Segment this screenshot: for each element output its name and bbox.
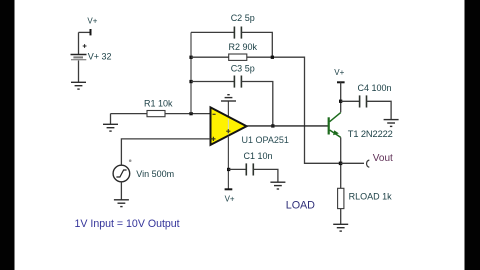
- ground (C4): [384, 120, 399, 127]
- svg-text:RLOAD 1k: RLOAD 1k: [349, 192, 393, 202]
- junction node collector/C4: [339, 100, 342, 103]
- junction node emitter/Vout/feedback: [339, 162, 343, 166]
- terminal tick V+ (battery): [90, 29, 92, 35]
- wire emitter down to load: [340, 137, 342, 188]
- ground (RLOAD): [333, 224, 348, 231]
- svg-text:V+: V+: [225, 194, 235, 203]
- wire op-amp output to base: [246, 125, 329, 127]
- op-amp supply plus mark: [226, 129, 230, 133]
- junction node C3/output: [271, 124, 274, 127]
- wire battery bottom vertical: [78, 61, 80, 83]
- op-amp plus input mark: [211, 137, 215, 141]
- battery V1 symbol plates: [71, 55, 87, 60]
- svg-text:C4 100n: C4 100n: [358, 83, 392, 93]
- terminal tick V+ (op-amp supply): [225, 188, 233, 190]
- wire battery top vertical: [78, 32, 80, 54]
- svg-text:C1 10n: C1 10n: [244, 151, 273, 161]
- svg-text:U1 OPA251: U1 OPA251: [242, 135, 289, 145]
- terminal tick V+ (collector): [337, 81, 345, 83]
- svg-text:V+: V+: [87, 16, 97, 25]
- op-amp U1 triangle: [211, 107, 247, 144]
- wire C1 right: [253, 169, 278, 182]
- svg-text:Vin 500m: Vin 500m: [136, 169, 174, 179]
- op-amp minus input mark: [213, 113, 216, 115]
- junction node left rail / R2: [189, 56, 192, 59]
- ground (C1): [270, 182, 285, 189]
- op-amp supply wire showing through triangle: [227, 119, 229, 134]
- capacitor C3: [234, 76, 241, 88]
- capacitor C4: [360, 95, 367, 107]
- wire R1 left: [111, 113, 148, 115]
- capacitor C2: [234, 27, 241, 39]
- wire R1 right to inverting input: [165, 113, 211, 115]
- wire collector vertical: [340, 82, 342, 112]
- wire RLOAD bottom: [340, 209, 342, 224]
- ground (Vin): [114, 200, 129, 207]
- wire Vin bottom: [120, 182, 122, 200]
- wire R2 right to emitter feedback: [247, 57, 341, 163]
- svg-text:V+ 32: V+ 32: [88, 52, 112, 62]
- wire C4 left: [341, 100, 360, 102]
- wire C3 left: [191, 81, 234, 83]
- wire C2 left: [191, 31, 234, 33]
- wire C2 right: [241, 32, 272, 57]
- svg-text:C3 5p: C3 5p: [231, 64, 255, 74]
- ground (R1 left): [103, 114, 118, 132]
- wire Vout stub: [341, 162, 365, 164]
- wire C4 right: [367, 101, 392, 119]
- resistor R2: [229, 54, 247, 60]
- junction node supply/C1: [227, 168, 230, 171]
- wire C1 left: [228, 168, 246, 170]
- wire left feedback rail: [190, 32, 192, 113]
- ground (battery): [71, 82, 86, 89]
- svg-text:1V Input = 10V Output: 1V Input = 10V Output: [75, 218, 180, 230]
- svg-text:V+: V+: [334, 68, 344, 77]
- source Vin positive terminal dot: [129, 159, 132, 162]
- terminal Vout open circle: [367, 160, 370, 167]
- battery V1 plus sign: [83, 44, 87, 48]
- source Vin circle: [113, 165, 130, 182]
- source Vin waveform glyph: [116, 170, 126, 177]
- transistor T1 2N2222: [329, 113, 341, 138]
- wire R2 left: [191, 56, 229, 58]
- wire battery top stub: [79, 31, 91, 33]
- right black pillarbox bar: [465, 0, 480, 270]
- wire op-amp V+ supply stub: [227, 136, 229, 189]
- wire Vin to non-inverting input: [121, 139, 210, 165]
- svg-text:R2 90k: R2 90k: [229, 42, 258, 52]
- svg-text:T1 2N2222: T1 2N2222: [348, 129, 393, 139]
- wire C3 right down to op-amp output: [241, 82, 272, 126]
- junction node at inverting input rail: [189, 112, 192, 115]
- capacitor C1: [246, 163, 253, 175]
- inverted ground above op-amp (V- pin): [221, 95, 236, 118]
- svg-text:R1 10k: R1 10k: [144, 99, 173, 109]
- left black pillarbox bar: [0, 0, 15, 270]
- resistor RLOAD: [338, 188, 344, 208]
- transistor emitter arrow: [333, 130, 339, 135]
- svg-text:C2 5p: C2 5p: [231, 13, 255, 23]
- svg-text:Vout: Vout: [373, 153, 393, 164]
- junction node R2/C2: [271, 56, 274, 59]
- resistor R1: [147, 111, 165, 117]
- svg-text:LOAD: LOAD: [286, 200, 315, 212]
- junction node left rail / C3: [189, 80, 192, 83]
